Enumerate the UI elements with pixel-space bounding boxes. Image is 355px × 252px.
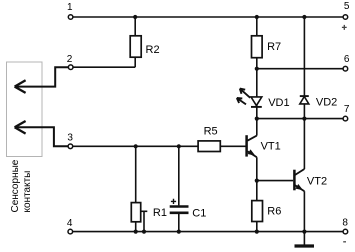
svg-text:C1: C1: [192, 207, 206, 219]
svg-text:R5: R5: [204, 126, 218, 138]
svg-text:VD1: VD1: [268, 97, 289, 109]
svg-text:VT1: VT1: [261, 140, 281, 152]
svg-text:Сенсорные: Сенсорные: [10, 159, 21, 212]
svg-text:3: 3: [67, 133, 73, 144]
svg-text:VD2: VD2: [316, 97, 337, 109]
svg-text:2: 2: [67, 54, 73, 65]
svg-text:R1: R1: [153, 207, 167, 219]
svg-text:8: 8: [342, 218, 348, 229]
svg-text:R7: R7: [267, 41, 281, 53]
svg-text:контакты: контакты: [22, 171, 33, 213]
svg-text:R6: R6: [267, 206, 281, 218]
svg-text:5: 5: [344, 1, 350, 12]
svg-text:R2: R2: [146, 44, 160, 56]
svg-text:VT2: VT2: [307, 175, 327, 187]
svg-text:4: 4: [67, 218, 73, 229]
svg-text:7: 7: [344, 104, 350, 115]
svg-text:6: 6: [344, 54, 350, 65]
svg-text:1: 1: [67, 2, 73, 13]
